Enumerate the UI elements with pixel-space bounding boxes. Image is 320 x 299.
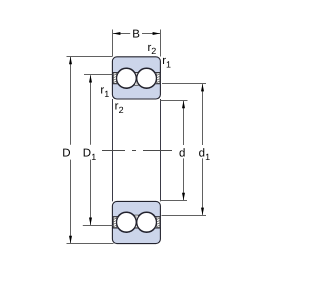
raceway gap strip bottom (with groove arcs)	[113, 212, 160, 233]
cage segment right top	[157, 73, 161, 84]
extension line B left	[112, 30, 114, 57]
svg-text:1: 1	[166, 59, 171, 69]
svg-text:d: d	[179, 148, 185, 160]
raceway gap strip top (with groove arcs)	[113, 68, 160, 89]
arrow B right	[153, 32, 161, 35]
extension line D1 bottom	[83, 225, 113, 227]
bore line left (between sections)	[112, 99, 114, 201]
ball left bottom	[117, 212, 137, 232]
arrow d down	[182, 193, 185, 201]
dimension line d	[183, 101, 185, 145]
svg-text:2: 2	[151, 46, 156, 56]
cage segment middle bottom	[135, 215, 139, 228]
arrow d1 up	[201, 84, 204, 92]
svg-text:1: 1	[205, 152, 210, 162]
svg-text:1: 1	[104, 89, 109, 99]
extension line d1 top	[162, 83, 206, 85]
ball left top	[117, 68, 137, 88]
dimension line d1	[202, 84, 204, 145]
arrow D1 up	[89, 75, 92, 83]
bearing outer body top (rings cross-section)	[112, 57, 160, 99]
extension line d top	[160, 100, 187, 102]
svg-text:2: 2	[119, 105, 124, 115]
ball right bottom	[137, 212, 157, 232]
arrow D down	[69, 236, 72, 244]
arrow D1 down	[89, 218, 92, 226]
bore line right (between sections)	[160, 99, 162, 201]
cage segment left top	[113, 73, 117, 84]
svg-text:1: 1	[91, 152, 96, 162]
extension line D bottom	[67, 243, 114, 245]
svg-text:D: D	[62, 148, 70, 160]
dimension line B	[113, 33, 130, 35]
ball right top	[137, 68, 157, 88]
centerline (axis)	[102, 150, 172, 152]
bearing outer body bottom	[112, 201, 160, 243]
cage segment left bottom	[113, 217, 117, 228]
dimension line D1	[90, 75, 92, 145]
dimension line D	[70, 57, 72, 145]
extension line D1 top	[84, 74, 112, 76]
extension line d1 bottom	[162, 215, 207, 217]
cage segment middle top	[135, 73, 139, 86]
svg-text:d: d	[199, 148, 205, 160]
svg-text:B: B	[132, 29, 140, 41]
extension line B right	[160, 30, 162, 57]
svg-text:D: D	[83, 148, 91, 160]
arrow D up	[69, 57, 72, 65]
arrow d1 down	[201, 208, 204, 216]
cage segment right bottom	[157, 217, 161, 228]
extension line D top	[67, 56, 113, 58]
arrow d up	[182, 101, 185, 109]
arrow B left	[113, 32, 121, 35]
extension line d bottom	[160, 200, 187, 202]
